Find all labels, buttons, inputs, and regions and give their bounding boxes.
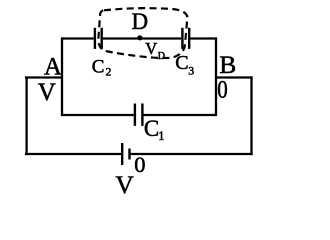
node V_D label — [145, 39, 165, 62]
wire outer-left vertical — [25, 76, 27, 155]
capacitor C1 label — [144, 116, 165, 143]
svg-text:V: V — [145, 39, 157, 58]
svg-text:C: C — [144, 116, 159, 141]
svg-text:2: 2 — [106, 67, 112, 79]
wire top AB branch middle segment (C2 to C3) — [103, 37, 181, 39]
wire outer-right vertical — [250, 76, 252, 155]
dashed loop around isolated plates — [98, 8, 187, 58]
svg-text:V: V — [38, 79, 56, 106]
wire bottom left of battery — [25, 153, 122, 155]
svg-text:3: 3 — [188, 66, 194, 78]
capacitor C2 label — [92, 56, 112, 78]
svg-text:A: A — [44, 53, 62, 80]
svg-text:B: B — [219, 50, 236, 79]
capacitor C2 plates — [95, 28, 102, 49]
wire stub node B to outer loop — [216, 76, 253, 78]
svg-text:C: C — [92, 56, 105, 77]
capacitor C1 plates — [135, 104, 143, 126]
svg-text:D: D — [132, 9, 149, 34]
svg-text:1: 1 — [158, 129, 164, 143]
wire inner-right vertical (B to top branch) — [215, 37, 217, 116]
wire stub node A to outer loop — [25, 76, 62, 78]
wire top AB branch left segment — [62, 37, 94, 39]
wire middle branch left of C1 — [62, 114, 134, 116]
wire inner-left vertical (A to top branch) — [61, 37, 63, 116]
wire bottom right of battery — [130, 153, 253, 155]
node D dot — [137, 35, 142, 40]
battery V0 (cell) — [122, 143, 129, 165]
capacitor C3 plates — [182, 28, 189, 49]
wire top AB branch right segment — [190, 37, 216, 39]
svg-text:0: 0 — [134, 152, 145, 177]
svg-text:V: V — [115, 170, 134, 199]
capacitor C3 label — [175, 52, 194, 78]
svg-text:0: 0 — [217, 77, 228, 104]
wire middle branch right of C1 — [144, 114, 217, 116]
svg-text:D: D — [158, 51, 165, 62]
